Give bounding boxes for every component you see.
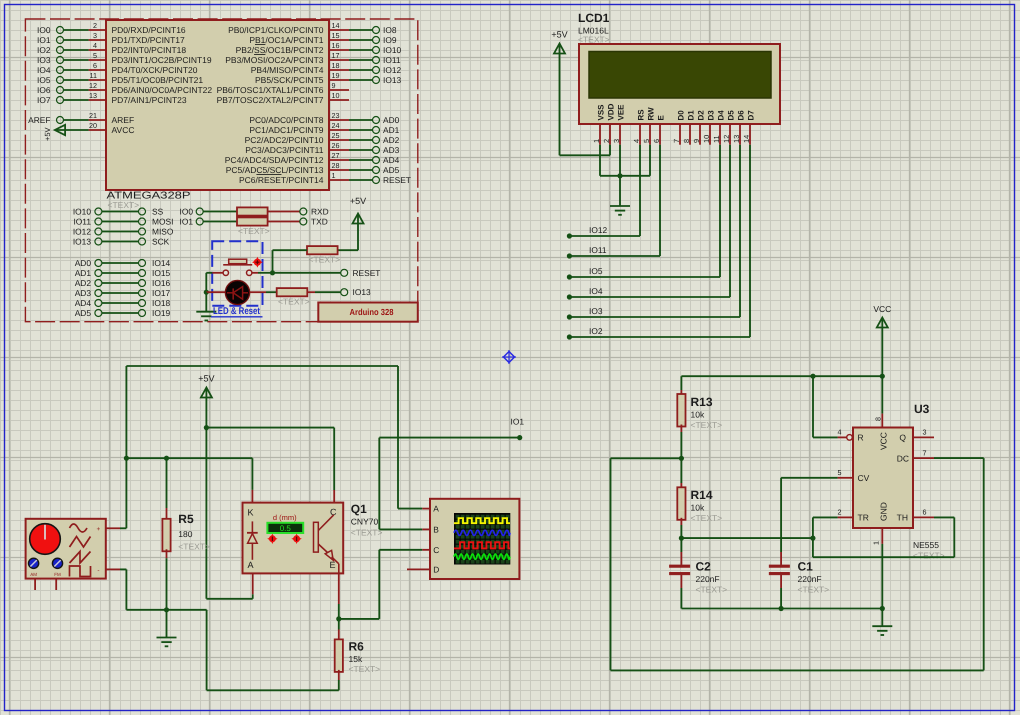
- svg-text:10k: 10k: [691, 410, 705, 420]
- LCD pin 10 D3: [702, 110, 715, 145]
- svg-text:IO5: IO5: [37, 75, 51, 85]
- svg-text:D7: D7: [747, 110, 756, 121]
- svg-text:<TEXT>: <TEXT>: [691, 513, 723, 523]
- svg-text:AM: AM: [30, 572, 37, 577]
- chip pin 17 PB3/MOSI/OC2A/PCINT3 with terminal IO11: [225, 51, 401, 65]
- svg-text:<TEXT>: <TEXT>: [108, 200, 140, 210]
- svg-text:RESET: RESET: [353, 268, 381, 278]
- terminal pair AD3 to IO17: [75, 288, 171, 298]
- svg-text:VDD: VDD: [607, 103, 616, 120]
- series resistor IO0 to RXD: [180, 206, 329, 216]
- LCD pin 13 D6: [732, 110, 745, 145]
- svg-text:IO2: IO2: [589, 326, 603, 336]
- svg-text:IO15: IO15: [152, 268, 170, 278]
- svg-text:LCD1: LCD1: [578, 11, 610, 25]
- terminal pair AD4 to IO18: [75, 298, 171, 308]
- LCD pin 12 D5: [722, 110, 735, 145]
- svg-text:15: 15: [332, 31, 340, 40]
- svg-text:PC0/ADC0/PCINT8: PC0/ADC0/PCINT8: [249, 115, 323, 125]
- svg-text:21: 21: [89, 111, 97, 120]
- svg-text:8: 8: [873, 417, 882, 421]
- svg-text:IO3: IO3: [37, 55, 51, 65]
- U3 pin 3 Q stub: [913, 428, 934, 438]
- svg-text:7: 7: [672, 139, 681, 143]
- chip pin 12 PD6/AIN0/OC0A/PCINT22 with terminal IO6: [37, 81, 212, 95]
- svg-text:B: B: [433, 524, 439, 534]
- origin marker: [502, 350, 516, 364]
- svg-text:D: D: [433, 564, 439, 574]
- svg-text:IO4: IO4: [37, 65, 51, 75]
- chip pin 3 PD1/TXD/PCINT17 with terminal IO1: [37, 31, 185, 45]
- svg-text:PD4/T0/XCK/PCINT20: PD4/T0/XCK/PCINT20: [112, 65, 198, 75]
- resistor R13 10k: [677, 376, 722, 458]
- svg-text:AD4: AD4: [383, 155, 400, 165]
- svg-text:2: 2: [602, 139, 611, 143]
- svg-text:<TEXT>: <TEXT>: [309, 255, 341, 265]
- svg-text:IO4: IO4: [589, 286, 603, 296]
- svg-text:VSS: VSS: [597, 104, 606, 121]
- +5V power symbol for reset pullup: [338, 196, 367, 250]
- LCD pin 1 VSS: [592, 104, 605, 145]
- ground under R5: [157, 607, 177, 646]
- svg-text:23: 23: [332, 111, 340, 120]
- chip pin 26 PC3/ADC3/PCINT11 with terminal AD3: [245, 141, 399, 155]
- svg-text:PB5/SCK/PCINT5: PB5/SCK/PCINT5: [255, 75, 324, 85]
- svg-text:<TEXT>: <TEXT>: [351, 528, 383, 538]
- svg-text:2: 2: [838, 508, 842, 517]
- svg-text:PC3/ADC3/PCINT11: PC3/ADC3/PCINT11: [245, 145, 324, 155]
- LCD pin 7 D0: [672, 110, 685, 145]
- U3 pin 6 TH wire to TR node: [813, 508, 954, 558]
- svg-text:IO12: IO12: [73, 226, 91, 236]
- svg-text:PB2/SS/OC1B/PCINT2: PB2/SS/OC1B/PCINT2: [236, 45, 324, 55]
- svg-text:D4: D4: [717, 110, 726, 121]
- svg-text:AD0: AD0: [383, 115, 400, 125]
- svg-text:IO1: IO1: [37, 35, 51, 45]
- chip pin 15 PB1/OC1A/PCINT1 with terminal IO9: [249, 31, 397, 45]
- svg-text:RXD: RXD: [311, 206, 329, 216]
- svg-text:16: 16: [332, 41, 340, 50]
- svg-text:<TEXT>: <TEXT>: [349, 664, 381, 674]
- svg-text:GND: GND: [879, 502, 889, 521]
- wire left rail generator plus: [124, 366, 129, 528]
- svg-text:3: 3: [923, 428, 927, 437]
- svg-text:D5: D5: [727, 110, 736, 121]
- resistor R6 15k: [335, 619, 380, 690]
- svg-text:TH: TH: [897, 513, 908, 523]
- terminal pair IO12 to MISO: [73, 226, 174, 236]
- svg-text:26: 26: [332, 141, 340, 150]
- svg-text:+5V: +5V: [43, 127, 52, 141]
- svg-text:Q: Q: [899, 433, 906, 443]
- svg-text:10: 10: [702, 135, 711, 143]
- svg-text:C2: C2: [696, 560, 712, 574]
- svg-text:-: -: [97, 568, 99, 575]
- resistor LED series to terminal IO13: [250, 287, 371, 306]
- wire capacitor ground rail: [681, 606, 885, 611]
- chip pin 10 PB7/TOSC2/XTAL2/PCINT7: [217, 91, 349, 105]
- svg-text:IO8: IO8: [383, 25, 397, 35]
- node R13/R14 junction wire: [611, 456, 685, 461]
- svg-text:6: 6: [93, 61, 97, 70]
- svg-text:6: 6: [652, 139, 661, 143]
- LCD pin 6 E: [652, 115, 665, 145]
- wire LCD to node IO11: [567, 145, 660, 259]
- LCD pin 14 D7: [742, 110, 755, 145]
- svg-text:PD0/RXD/PCINT16: PD0/RXD/PCINT16: [112, 25, 186, 35]
- svg-text:D6: D6: [737, 110, 746, 121]
- wire E node to oscilloscope C: [339, 550, 423, 619]
- label LED & Reset: [211, 306, 263, 317]
- optocoupler Q1 CNY70 body: [243, 503, 344, 574]
- svg-text:<TEXT>: <TEXT>: [178, 542, 210, 552]
- svg-text:8: 8: [682, 139, 691, 143]
- svg-text:IO5: IO5: [589, 266, 603, 276]
- svg-text:R5: R5: [178, 512, 194, 526]
- svg-text:PB3/MOSI/OC2A/PCINT3: PB3/MOSI/OC2A/PCINT3: [225, 55, 324, 65]
- svg-text:IO12: IO12: [589, 225, 607, 235]
- svg-text:IO9: IO9: [383, 35, 397, 45]
- svg-text:PB6/TOSC1/XTAL1/PCINT6: PB6/TOSC1/XTAL1/PCINT6: [217, 85, 324, 95]
- svg-text:<TEXT>: <TEXT>: [278, 297, 310, 307]
- svg-text:R13: R13: [691, 395, 713, 409]
- svg-text:28: 28: [332, 161, 340, 170]
- svg-text:RESET: RESET: [383, 175, 411, 185]
- oscilloscope 4-channel: [407, 499, 519, 579]
- terminal pair AD0 to IO14: [75, 258, 171, 268]
- chip pin 16 PB2/SS/OC1B/PCINT2 with terminal IO10: [236, 41, 402, 55]
- svg-text:<TEXT>: <TEXT>: [798, 585, 830, 595]
- svg-text:PB7/TOSC2/XTAL2/PCINT7: PB7/TOSC2/XTAL2/PCINT7: [217, 95, 324, 105]
- svg-text:0.5: 0.5: [280, 524, 292, 533]
- svg-text:R14: R14: [691, 488, 713, 502]
- svg-text:17: 17: [332, 51, 340, 60]
- svg-text:D0: D0: [677, 110, 686, 121]
- interactive marker (red star) of push button: [252, 257, 263, 268]
- svg-text:D3: D3: [707, 110, 716, 121]
- svg-text:R6: R6: [349, 640, 365, 654]
- labels Q1 CNY70: [351, 502, 383, 538]
- +5V power symbol bottom: [198, 374, 214, 431]
- svg-text:PD6/AIN0/OC0A/PCINT22: PD6/AIN0/OC0A/PCINT22: [112, 85, 213, 95]
- chip pin 24 PC1/ADC1/PCINT9 with terminal AD1: [249, 121, 399, 135]
- chip pin 14 PB0/ICP1/CLKO/PCINT0 with terminal IO8: [228, 21, 397, 35]
- svg-text:IO10: IO10: [383, 45, 401, 55]
- svg-text:IO18: IO18: [152, 298, 170, 308]
- wire node row to CNY70 K pin: [126, 456, 252, 503]
- wire +5V to CNY70 C pin: [206, 428, 334, 503]
- terminal pair IO10 to SS: [73, 206, 164, 216]
- chip pin 18 PB4/MISO/PCINT4 with terminal IO12: [251, 61, 402, 75]
- LED D1: [206, 280, 249, 304]
- IC U3 NE555 body: [853, 402, 945, 561]
- svg-text:5: 5: [642, 139, 651, 143]
- svg-text:4: 4: [632, 139, 641, 143]
- svg-text:IO1: IO1: [511, 417, 525, 427]
- svg-text:MOSI: MOSI: [152, 216, 173, 226]
- svg-text:15k: 15k: [349, 654, 363, 664]
- chip pin 2 PD0/RXD/PCINT16 with terminal IO0: [37, 21, 186, 35]
- svg-text:IO14: IO14: [152, 258, 170, 268]
- U3 pin 8 VCC: [873, 376, 882, 427]
- svg-text:13: 13: [732, 135, 741, 143]
- svg-text:220nF: 220nF: [696, 574, 720, 584]
- svg-text:14: 14: [332, 21, 340, 30]
- svg-text:IO3: IO3: [589, 306, 603, 316]
- svg-text:AREF: AREF: [28, 115, 50, 125]
- wire top rail to oscilloscope A: [126, 366, 422, 509]
- svg-text:RS: RS: [637, 109, 646, 121]
- terminal pair IO11 to MOSI: [73, 216, 173, 226]
- resistor reset pullup: [273, 246, 341, 273]
- svg-text:AD1: AD1: [383, 125, 400, 135]
- svg-text:PC1/ADC1/PCINT9: PC1/ADC1/PCINT9: [249, 125, 323, 135]
- svg-text:C1: C1: [798, 560, 814, 574]
- chip pin 9 PB6/TOSC1/XTAL1/PCINT6: [217, 81, 349, 95]
- svg-text:9: 9: [332, 81, 336, 90]
- svg-text:K: K: [248, 508, 254, 518]
- svg-text:1: 1: [871, 541, 880, 545]
- dashed box LED & Reset: [212, 241, 262, 305]
- terminal pair AD1 to IO15: [75, 268, 171, 278]
- LCD pin 9 D2: [692, 110, 705, 145]
- svg-text:<TEXT>: <TEXT>: [238, 226, 270, 236]
- svg-text:24: 24: [332, 121, 340, 130]
- wire +5V to CNY70 A pin: [206, 428, 252, 599]
- svg-text:TXD: TXD: [311, 216, 328, 226]
- chip pin 19 PB5/SCK/PCINT5 with terminal IO13: [255, 71, 401, 85]
- subcircuit boundary box Arduino 328: [25, 19, 417, 322]
- terminal pair AD5 to IO19: [75, 308, 171, 318]
- svg-text:Arduino 328: Arduino 328: [350, 307, 394, 317]
- svg-text:AD1: AD1: [75, 268, 92, 278]
- svg-text:E: E: [330, 560, 336, 570]
- chip pin 28 PC5/ADC5/SCL/PCINT13 with terminal AD5: [226, 161, 400, 175]
- U3 pin 5 CV stub: [838, 468, 854, 478]
- svg-text:7: 7: [923, 448, 927, 457]
- LCD pin 8 D1: [682, 110, 695, 145]
- svg-text:d (mm): d (mm): [273, 513, 297, 522]
- wire LCD to node IO2: [567, 145, 750, 340]
- svg-text:CV: CV: [858, 473, 870, 483]
- LCD pin 5 RW: [642, 107, 655, 145]
- chip pin 1 PC6/RESET/PCINT14 with terminal RESET: [239, 171, 411, 185]
- svg-text:R: R: [858, 433, 864, 443]
- wire LCD to node IO3: [567, 145, 740, 320]
- svg-text:PC4/ADC4/SDA/PCINT12: PC4/ADC4/SDA/PCINT12: [225, 155, 324, 165]
- svg-text:VCC: VCC: [873, 304, 891, 314]
- svg-text:IO19: IO19: [152, 308, 170, 318]
- svg-text:13: 13: [89, 91, 97, 100]
- LCD pin 11 D4: [712, 110, 725, 145]
- svg-text:25: 25: [332, 131, 340, 140]
- svg-text:PD5/T1/OC0B/PCINT21: PD5/T1/OC0B/PCINT21: [112, 75, 204, 85]
- svg-text:IO13: IO13: [383, 75, 401, 85]
- svg-text:IO12: IO12: [383, 65, 401, 75]
- svg-text:TR: TR: [858, 513, 869, 523]
- svg-text:27: 27: [332, 151, 340, 160]
- svg-text:PD3/INT1/OC2B/PCINT19: PD3/INT1/OC2B/PCINT19: [112, 55, 212, 65]
- svg-text:+5V: +5V: [198, 374, 214, 384]
- svg-text:5: 5: [93, 51, 97, 60]
- svg-text:6: 6: [923, 508, 927, 517]
- svg-text:IO13: IO13: [353, 287, 371, 297]
- chip pin 4 PD2/INT0/PCINT18 with terminal IO2: [37, 41, 186, 55]
- svg-text:1: 1: [332, 171, 336, 180]
- push button (reset): [212, 259, 272, 275]
- svg-text:IO11: IO11: [383, 55, 401, 65]
- wire VCC rail to R13 and pin4: [681, 374, 885, 379]
- LCD pin 2 VDD: [602, 103, 615, 144]
- chip pin 25 PC2/ADC2/PCINT10 with terminal AD2: [245, 131, 400, 145]
- svg-text:+5V: +5V: [350, 196, 366, 206]
- LCD pin 4 RS: [632, 109, 645, 145]
- wire LCD to node IO5: [567, 145, 720, 280]
- +5V power symbol to LCD VDD: [551, 30, 610, 156]
- svg-text:Q1: Q1: [351, 502, 367, 516]
- svg-text:11: 11: [712, 135, 721, 143]
- svg-text:PC6/RESET/PCINT14: PC6/RESET/PCINT14: [239, 175, 324, 185]
- svg-text:IO17: IO17: [152, 288, 170, 298]
- svg-text:LED & Reset: LED & Reset: [213, 306, 261, 317]
- pulse generator: [26, 519, 106, 590]
- svg-text:3: 3: [612, 139, 621, 143]
- svg-text:12: 12: [722, 135, 731, 143]
- U3 pin 4 R wire to VCC rail: [813, 376, 852, 440]
- svg-text:IO13: IO13: [73, 236, 91, 246]
- svg-text:D2: D2: [697, 110, 706, 121]
- resistor R5 180: [162, 458, 210, 610]
- svg-text:IO7: IO7: [37, 95, 51, 105]
- capacitor C2 220nF: [669, 538, 727, 608]
- svg-text:VEE: VEE: [617, 104, 626, 121]
- svg-text:AD0: AD0: [75, 258, 92, 268]
- chip pin 5 PD3/INT1/OC2B/PCINT19 with terminal IO3: [37, 51, 212, 65]
- svg-text:D1: D1: [687, 110, 696, 121]
- svg-text:DC: DC: [897, 453, 909, 463]
- svg-text:A: A: [248, 560, 254, 570]
- svg-text:AVCC: AVCC: [112, 125, 135, 135]
- wire button left to LED node: [204, 273, 213, 295]
- svg-text:14: 14: [742, 135, 751, 143]
- svg-text:+: +: [97, 526, 101, 533]
- svg-text:AD3: AD3: [383, 145, 400, 155]
- svg-text:IO6: IO6: [37, 85, 51, 95]
- svg-text:PB1/OC1A/PCINT1: PB1/OC1A/PCINT1: [249, 35, 323, 45]
- generator - output wire to ground rail: [106, 569, 167, 609]
- svg-text:AD5: AD5: [383, 165, 400, 175]
- svg-text:3: 3: [93, 31, 97, 40]
- wire CNY70 E pin to node: [336, 573, 341, 621]
- chip pin 27 PC4/ADC4/SDA/PCINT12 with terminal AD4: [225, 151, 400, 165]
- chip pin 23 PC0/ADC0/PCINT8 with terminal AD0: [249, 111, 399, 125]
- chip pin 20 AVCC with +5V power symbol: [43, 121, 135, 141]
- svg-text:IO1: IO1: [180, 216, 194, 226]
- svg-text:PB0/ICP1/CLKO/PCINT0: PB0/ICP1/CLKO/PCINT0: [228, 25, 324, 35]
- svg-text:E: E: [657, 115, 666, 121]
- wire and terminal RESET: [270, 268, 381, 278]
- svg-text:<TEXT>: <TEXT>: [691, 420, 723, 430]
- svg-text:1: 1: [592, 139, 601, 143]
- svg-text:VCC: VCC: [879, 432, 889, 450]
- svg-text:20: 20: [89, 121, 97, 130]
- svg-text:4: 4: [838, 428, 842, 437]
- svg-text:PD7/AIN1/PCINT23: PD7/AIN1/PCINT23: [112, 95, 187, 105]
- svg-text:AD2: AD2: [75, 278, 92, 288]
- svg-text:12: 12: [89, 81, 97, 90]
- wire LCD to node IO4: [567, 145, 730, 300]
- labels LCD1 LM016L: [578, 11, 610, 45]
- svg-text:IO0: IO0: [37, 25, 51, 35]
- svg-text:PC5/ADC5/SCL/PCINT13: PC5/ADC5/SCL/PCINT13: [226, 165, 324, 175]
- ground under LED block: [196, 292, 216, 320]
- node IO1 wire to oscilloscope B: [379, 417, 524, 530]
- svg-text:A: A: [433, 504, 439, 514]
- svg-text:IO2: IO2: [37, 45, 51, 55]
- svg-text:PC2/ADC2/PCINT10: PC2/ADC2/PCINT10: [245, 135, 324, 145]
- LCD LCD1 body and screen: [579, 44, 780, 124]
- svg-text:<TEXT>: <TEXT>: [696, 585, 728, 595]
- svg-text:MISO: MISO: [152, 226, 174, 236]
- svg-text:5: 5: [838, 468, 842, 477]
- U3 pin1 GND and ground symbol: [871, 528, 892, 635]
- wire LCD to node IO12: [567, 145, 640, 239]
- svg-text:9: 9: [692, 139, 701, 143]
- svg-text:SS: SS: [152, 206, 164, 216]
- svg-text:220nF: 220nF: [798, 574, 822, 584]
- chip pin 6 PD4/T0/XCK/PCINT20 with terminal IO4: [37, 61, 198, 75]
- svg-text:IO11: IO11: [589, 245, 607, 255]
- resistor R14 10k: [677, 458, 722, 538]
- generator + output wire: [106, 527, 127, 529]
- svg-text:U3: U3: [914, 402, 930, 416]
- svg-text:11: 11: [90, 71, 97, 80]
- svg-text:CNY70: CNY70: [351, 517, 379, 527]
- title box Arduino 328: [318, 303, 418, 322]
- svg-text:FM: FM: [54, 572, 61, 577]
- chip pin 11 PD5/T1/OC0B/PCINT21 with terminal IO5: [37, 71, 203, 85]
- svg-text:SCK: SCK: [152, 236, 170, 246]
- svg-text:AD5: AD5: [75, 308, 92, 318]
- svg-text:IO16: IO16: [152, 278, 170, 288]
- svg-text:NE555: NE555: [913, 540, 939, 550]
- svg-text:C: C: [433, 545, 439, 555]
- LCD pin 3 VEE: [612, 104, 625, 145]
- svg-text:19: 19: [332, 71, 340, 80]
- svg-text:IO11: IO11: [73, 216, 91, 226]
- svg-text:2: 2: [93, 21, 97, 30]
- svg-text:IO10: IO10: [73, 206, 91, 216]
- chip pin 21 AREF with terminal AREF: [28, 111, 134, 125]
- chip pin 13 PD7/AIN1/PCINT23 with terminal IO7: [37, 91, 187, 105]
- label text under RXD/TXD resistors: [238, 226, 270, 236]
- svg-text:4: 4: [93, 41, 97, 50]
- svg-text:PD1/TXD/PCINT17: PD1/TXD/PCINT17: [112, 35, 185, 45]
- wire ground rail to R6 bottom: [167, 610, 339, 691]
- svg-text:PD2/INT0/PCINT18: PD2/INT0/PCINT18: [112, 45, 187, 55]
- wire R14 bottom to TR node: [679, 536, 816, 541]
- svg-text:AD4: AD4: [75, 298, 92, 308]
- terminal pair IO13 to SCK: [73, 236, 170, 246]
- svg-text:180: 180: [178, 529, 192, 539]
- svg-text:IO0: IO0: [180, 206, 194, 216]
- U3 pin 2 TR wire: [813, 508, 853, 539]
- svg-text:10k: 10k: [691, 503, 705, 513]
- svg-text:18: 18: [332, 61, 340, 70]
- IC ATMEGA328P body: [106, 20, 329, 210]
- U3 pin 7 DC feedback loop wire: [611, 448, 984, 670]
- svg-text:<TEXT>: <TEXT>: [913, 551, 945, 561]
